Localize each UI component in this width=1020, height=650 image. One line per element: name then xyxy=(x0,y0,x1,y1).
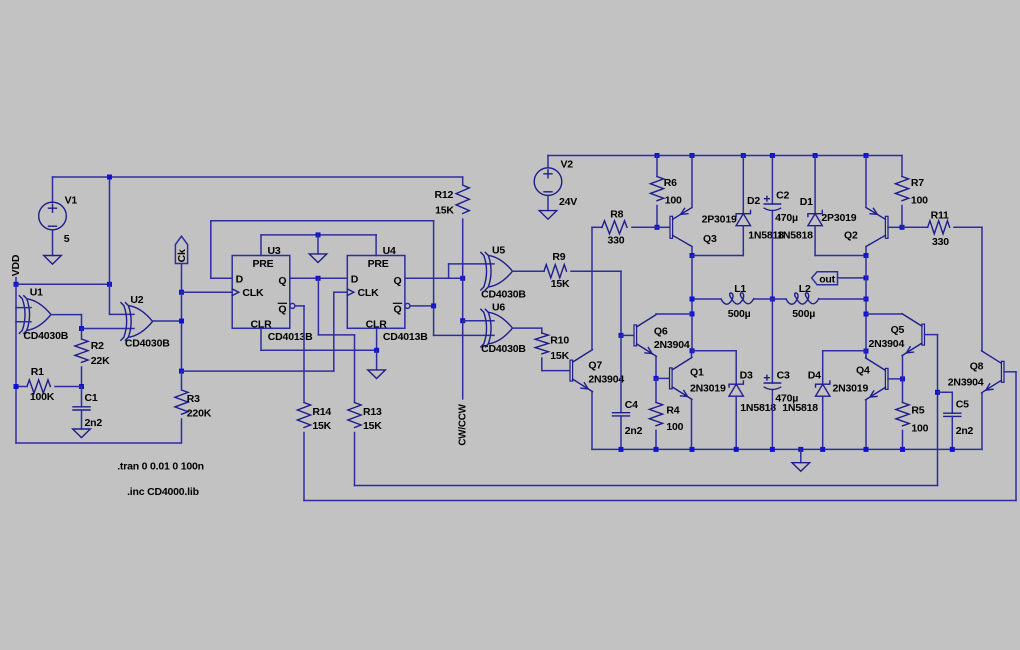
junction Ck/R3 xyxy=(179,369,184,374)
wire R6 bottom lead xyxy=(656,206,658,228)
wire Qbar to U6 xyxy=(433,306,435,336)
svg-text:D1: D1 xyxy=(800,196,813,208)
wire L2 left lead xyxy=(772,298,786,300)
svg-text:C5: C5 xyxy=(956,399,969,411)
svg-text:C4: C4 xyxy=(625,399,638,411)
ground PRE xyxy=(309,254,327,263)
svg-text:330: 330 xyxy=(932,236,949,248)
wire C5 wire xyxy=(938,391,953,393)
wire V1 bottom xyxy=(52,230,54,256)
xor gate U2 xyxy=(121,303,153,341)
pin Qbar bubble U3 xyxy=(290,303,295,308)
wire V2 stem xyxy=(547,156,549,168)
wire PRE gnd stem xyxy=(317,235,319,254)
wire D4 bottom lead xyxy=(822,396,824,449)
junction Q3 base node xyxy=(655,225,660,230)
wire Q tap right xyxy=(318,334,354,336)
wire R9 down xyxy=(620,271,622,335)
svg-text:D4: D4 xyxy=(808,370,821,382)
wire U2 upper input xyxy=(110,313,135,315)
svg-text:Q2: Q2 xyxy=(844,229,858,241)
svg-text:R6: R6 xyxy=(664,177,677,189)
junction Q1 base node xyxy=(654,376,659,381)
svg-text:R10: R10 xyxy=(550,335,569,347)
inductor L2 xyxy=(786,293,819,304)
wire R12 bottom lead xyxy=(462,219,464,278)
wire D1 bottom lead xyxy=(814,226,816,256)
svg-text:100: 100 xyxy=(911,423,928,435)
junction rail Q4e xyxy=(864,447,869,452)
svg-text:D3: D3 xyxy=(740,370,753,382)
svg-text:V1: V1 xyxy=(65,195,78,207)
svg-text:100K: 100K xyxy=(30,391,55,403)
wire U1 output xyxy=(51,314,82,316)
wire U1 input b xyxy=(16,321,31,323)
svg-text:C1: C1 xyxy=(85,392,98,404)
svg-text:VDD: VDD xyxy=(10,254,22,276)
inductor L1 xyxy=(721,293,754,304)
capacitor C1 xyxy=(73,407,90,410)
svg-text:5: 5 xyxy=(64,233,70,245)
wire Q1 emitter xyxy=(691,399,693,449)
wire R8 left corner xyxy=(592,226,602,228)
wire Q4 emitter xyxy=(865,400,867,450)
junction rail gnd xyxy=(798,447,803,452)
diode D2 xyxy=(736,211,750,226)
svg-text:330: 330 xyxy=(608,235,625,247)
svg-text:R12: R12 xyxy=(435,189,454,201)
ground main xyxy=(792,463,810,472)
wire bottom long Q8 base xyxy=(304,500,1016,502)
wire bottom left xyxy=(16,442,181,444)
wire C1 bottom lead xyxy=(81,410,83,429)
net flag out xyxy=(812,272,838,285)
svg-text:R8: R8 xyxy=(610,209,623,221)
wire U2 output xyxy=(153,320,181,322)
wire U5 out xyxy=(513,270,545,272)
wire C3 top lead xyxy=(771,299,773,383)
svg-text:out: out xyxy=(819,273,835,285)
capacitor C5 xyxy=(944,413,961,416)
resistor R7 xyxy=(895,177,908,201)
wire R3 top lead xyxy=(181,371,183,390)
wire U4 Q out xyxy=(405,277,463,279)
wire V2 rail xyxy=(548,155,902,157)
svg-text:R14: R14 xyxy=(312,406,331,418)
svg-text:24V: 24V xyxy=(559,196,577,208)
wire R3 bottom lead xyxy=(181,419,183,443)
junction CWCCW/U6 xyxy=(460,318,465,323)
ground V1 xyxy=(44,256,62,265)
svg-text:CW/CCW: CW/CCW xyxy=(458,403,469,445)
svg-text:.inc CD4000.lib: .inc CD4000.lib xyxy=(127,486,199,498)
wire U3 PRE up xyxy=(260,235,262,256)
transistor Q7 xyxy=(570,350,593,392)
junction Q4 base node xyxy=(900,376,905,381)
junction at x109 xyxy=(107,282,112,287)
wire U3 Q to U4 D xyxy=(290,277,348,279)
wire R10 top xyxy=(541,328,543,333)
wire R4 bottom lead xyxy=(655,430,657,449)
wire U6 out xyxy=(513,327,542,329)
junction rail R5 xyxy=(900,447,905,452)
junction C5 node xyxy=(935,390,940,395)
transistor Q1 xyxy=(670,357,693,399)
junction rail drop xyxy=(107,175,112,180)
resistor R5 xyxy=(896,403,909,426)
wire U4 PRE up xyxy=(375,235,377,256)
svg-text:15K: 15K xyxy=(363,420,382,432)
wire L1 right lead xyxy=(755,298,773,300)
flip-flop U3 body xyxy=(232,256,290,329)
wire R7 corner xyxy=(901,156,903,177)
svg-text:D: D xyxy=(351,274,359,286)
svg-text:R7: R7 xyxy=(911,177,924,189)
capacitor C3 xyxy=(764,375,780,389)
wire ground rail xyxy=(592,448,982,450)
resistor R8 xyxy=(602,221,627,234)
wire D4 top lead xyxy=(822,351,824,384)
svg-text:1N5818: 1N5818 xyxy=(777,229,813,241)
svg-text:C3: C3 xyxy=(777,370,790,382)
junction Q2 base node xyxy=(900,225,905,230)
wire Q2 base xyxy=(888,226,902,228)
junction Ck/U2out xyxy=(179,319,184,324)
wire Q8 emitter xyxy=(981,393,983,450)
resistor R9 xyxy=(544,265,567,278)
wire Ck vertical xyxy=(181,292,183,371)
wire Q3 base xyxy=(657,226,669,228)
resistor R12 xyxy=(456,185,469,213)
junction Q4 collector/D4 xyxy=(864,349,869,354)
wire Q7 emitter xyxy=(591,392,593,450)
wire CWCCW mid xyxy=(462,278,464,320)
svg-text:Ck: Ck xyxy=(176,249,188,262)
resistor R10 xyxy=(535,333,548,354)
wire L2 right lead xyxy=(820,298,866,300)
junction rail R6 xyxy=(655,153,660,158)
wire out xyxy=(838,277,867,279)
wire U5 input a xyxy=(449,263,494,265)
svg-text:Q7: Q7 xyxy=(588,360,602,372)
wire C4 top lead xyxy=(620,335,622,412)
wire R11 left lead xyxy=(902,226,928,228)
wire feedback right vertical xyxy=(433,221,435,306)
wire R13 top vertical xyxy=(354,335,356,403)
wire C1 top lead xyxy=(81,387,83,407)
svg-text:Q3: Q3 xyxy=(703,233,717,245)
wire VDD rail top xyxy=(53,176,463,178)
wire U1 output down xyxy=(81,315,83,329)
wire PRE horizontal xyxy=(261,234,376,236)
pin CLK arrow U3 xyxy=(232,289,239,296)
junction rail D1 xyxy=(813,153,818,158)
wire R12 top lead xyxy=(462,177,464,185)
svg-text:2N3904: 2N3904 xyxy=(948,377,984,389)
svg-text:D: D xyxy=(236,274,244,286)
junction L1 L2 C2 C3 xyxy=(770,297,775,302)
wire Q5 base riser xyxy=(937,335,939,486)
wire R10 bottom xyxy=(541,358,543,371)
wire D1 top lead xyxy=(814,156,816,214)
svg-text:D2: D2 xyxy=(747,195,760,207)
svg-text:2N3904: 2N3904 xyxy=(654,339,690,351)
junction out xyxy=(864,275,869,280)
svg-text:500µ: 500µ xyxy=(728,308,751,320)
svg-text:2n2: 2n2 xyxy=(85,417,103,429)
svg-text:Q: Q xyxy=(278,304,286,316)
svg-text:500µ: 500µ xyxy=(792,308,815,320)
svg-text:CLK: CLK xyxy=(242,287,264,299)
ground C1 xyxy=(73,429,91,438)
svg-text:PRE: PRE xyxy=(368,258,389,270)
svg-text:CD4030B: CD4030B xyxy=(23,330,68,342)
svg-text:2N3904: 2N3904 xyxy=(869,338,905,350)
svg-text:2N3019: 2N3019 xyxy=(690,382,726,394)
svg-text:2P3019: 2P3019 xyxy=(702,214,737,226)
wire Q8 base lead xyxy=(1004,371,1016,373)
svg-text:R9: R9 xyxy=(552,251,565,263)
wire Q4 base xyxy=(888,378,903,380)
wire Q8 collector riser xyxy=(981,227,983,350)
svg-text:R13: R13 xyxy=(363,406,382,418)
wire Q3 collector xyxy=(691,247,693,256)
resistor R1 xyxy=(27,380,50,393)
wire Q4 collector xyxy=(865,351,867,358)
svg-text:22K: 22K xyxy=(91,355,110,367)
wire R6 top lead xyxy=(656,156,658,177)
wire Q5 collector xyxy=(866,313,903,315)
svg-text:100: 100 xyxy=(666,421,683,433)
svg-text:2N3904: 2N3904 xyxy=(588,373,624,385)
resistor R2 xyxy=(75,339,88,362)
svg-text:15K: 15K xyxy=(551,278,570,290)
svg-text:100: 100 xyxy=(911,195,928,207)
xor gate U1 xyxy=(19,296,51,334)
pin Qbar overline U3 xyxy=(278,302,286,304)
svg-text:L2: L2 xyxy=(799,283,811,295)
wire D3 top wire xyxy=(692,350,736,352)
diode D1 xyxy=(808,211,822,226)
junction rail Q1e xyxy=(690,447,695,452)
svg-text:Q: Q xyxy=(394,275,402,287)
wire Q7 base xyxy=(542,370,569,372)
svg-text:R5: R5 xyxy=(911,405,924,417)
wire R5 bottom lead xyxy=(902,431,904,450)
svg-text:470µ: 470µ xyxy=(775,212,798,224)
wire mid bus xyxy=(691,256,693,351)
wire Q3 emitter xyxy=(691,156,693,208)
junction U1 out node xyxy=(79,326,84,331)
transistor Q2 xyxy=(866,208,888,247)
svg-text:220K: 220K xyxy=(187,408,212,420)
svg-text:Q4: Q4 xyxy=(856,364,870,376)
junction Q3a node xyxy=(316,276,321,281)
net flag Ck xyxy=(175,236,187,263)
svg-text:CD4030B: CD4030B xyxy=(481,343,526,355)
wire Q7 collector xyxy=(591,227,593,349)
junction Q6 base node xyxy=(619,333,624,338)
wire VDD stem xyxy=(15,278,17,285)
svg-text:U4: U4 xyxy=(383,245,396,257)
wire Ck stem xyxy=(181,264,183,293)
resistor R11 xyxy=(928,221,950,234)
wire C2 top lead xyxy=(771,156,773,205)
svg-text:15K: 15K xyxy=(435,205,454,217)
svg-text:CD4030B: CD4030B xyxy=(481,289,526,301)
voltage source V2 xyxy=(534,168,562,196)
wire right bus a xyxy=(865,256,867,358)
flip-flop U4 body xyxy=(347,256,405,329)
capacitor C2 xyxy=(764,196,780,210)
wire Q6 collector xyxy=(656,313,692,315)
svg-text:PRE: PRE xyxy=(253,258,274,270)
transistor Q8 xyxy=(982,351,1005,393)
wire C5 top lead xyxy=(951,392,953,413)
svg-text:U6: U6 xyxy=(492,302,505,314)
wire R11 right lead xyxy=(954,226,982,228)
junction rail D2 xyxy=(741,153,746,158)
wire R4 top lead xyxy=(655,378,657,402)
wire Q1 collector xyxy=(691,351,693,358)
junction rail Q3e xyxy=(690,153,695,158)
svg-text:Q6: Q6 xyxy=(654,325,668,337)
wire Q6 base xyxy=(621,334,633,336)
junction PRE ground xyxy=(316,232,321,237)
junction R1 left xyxy=(14,384,19,389)
junction rail D3 xyxy=(734,447,739,452)
wire R8 right lead xyxy=(632,226,657,228)
svg-text:C2: C2 xyxy=(776,190,789,202)
resistor R4 xyxy=(649,402,662,425)
wire U5 input tap up xyxy=(448,264,450,278)
diode D3 xyxy=(729,381,743,396)
wire R2 top lead xyxy=(81,329,83,340)
svg-text:2n2: 2n2 xyxy=(956,425,974,437)
wire U4 CLK vertical xyxy=(333,292,335,371)
resistor R13 xyxy=(348,403,361,428)
wire CWCCW tail xyxy=(462,321,464,399)
wire L1 left lead xyxy=(692,298,721,300)
wire R14 bottom xyxy=(303,433,305,501)
wire CLR gnd stem xyxy=(376,350,378,370)
capacitor C4 xyxy=(613,413,630,416)
resistor R6 xyxy=(650,177,663,201)
svg-text:CLK: CLK xyxy=(358,287,380,299)
wire U4 CLR down xyxy=(376,328,378,350)
svg-text:100: 100 xyxy=(665,195,682,207)
wire U3 CLK xyxy=(182,291,233,293)
resistor R3 xyxy=(175,390,188,414)
wire Q2 collector xyxy=(865,247,867,256)
wire V2 bottom xyxy=(547,195,549,210)
wire D2 bottom lead xyxy=(742,226,744,256)
svg-text:CD4013B: CD4013B xyxy=(268,331,313,343)
wire CLR horizontal xyxy=(261,349,377,351)
svg-text:1N5818: 1N5818 xyxy=(740,402,776,414)
svg-text:V2: V2 xyxy=(561,159,574,171)
wire U1 input a xyxy=(16,307,31,309)
junction Q1 collector/D3 xyxy=(690,348,695,353)
svg-text:2N3019: 2N3019 xyxy=(833,382,869,394)
junction rail D4 xyxy=(820,447,825,452)
diode D4 xyxy=(816,381,830,396)
junction rail C5 xyxy=(950,447,955,452)
junction rail C4 xyxy=(619,447,624,452)
junction R2/C1/R1 xyxy=(79,384,84,389)
wire gnd stem xyxy=(800,449,802,462)
wire U3 CLR down xyxy=(260,328,262,350)
svg-text:15K: 15K xyxy=(312,420,331,432)
svg-text:U2: U2 xyxy=(130,294,143,306)
wire bottom long Q5 base xyxy=(355,485,938,487)
junction Q/R12 xyxy=(460,276,465,281)
wire C4 bottom lead xyxy=(620,416,622,449)
svg-text:R3: R3 xyxy=(187,393,200,405)
wire D2 top lead xyxy=(742,156,744,214)
svg-text:.tran 0 0.01 0 100n: .tran 0 0.01 0 100n xyxy=(117,460,204,472)
junction rail R4 xyxy=(654,447,659,452)
svg-text:U3: U3 xyxy=(268,245,281,257)
junction CLR xyxy=(374,348,379,353)
svg-text:R4: R4 xyxy=(666,405,679,417)
wire D2 bottom wire xyxy=(692,255,743,257)
pin CLK arrow U4 xyxy=(347,289,354,296)
junction VDD node xyxy=(14,282,19,287)
wire U3 Qbar out xyxy=(295,305,304,307)
junction Q3 collector xyxy=(690,253,695,258)
wire U4 Qbar out xyxy=(410,305,434,307)
xor gate U6 xyxy=(481,309,513,347)
wire R13 bottom xyxy=(354,433,356,486)
svg-text:Q5: Q5 xyxy=(891,324,905,336)
transistor Q5 xyxy=(902,314,925,356)
wire to U2 input b xyxy=(82,328,135,330)
wire left rail vertical xyxy=(15,284,17,443)
svg-text:L1: L1 xyxy=(734,283,746,295)
wire D3 top lead xyxy=(735,351,737,384)
resistor R14 xyxy=(297,403,310,428)
svg-text:Q: Q xyxy=(278,275,286,287)
junction U4 Qbar node xyxy=(431,303,436,308)
wire U4 CLK stub xyxy=(334,291,348,293)
transistor Q6 xyxy=(634,314,657,356)
wire Q1 base xyxy=(656,377,669,379)
svg-text:R1: R1 xyxy=(31,366,44,378)
wire C5 bottom lead xyxy=(951,417,953,450)
junction Q2 collector xyxy=(864,253,869,258)
junction Ck/CLK xyxy=(179,290,184,295)
wire R9 out xyxy=(571,270,621,272)
junction rail Q2e xyxy=(864,153,869,158)
junction rail C3 xyxy=(770,447,775,452)
junction Q6 collector xyxy=(690,311,695,316)
voltage source V1 xyxy=(39,202,67,230)
svg-text:1N5818: 1N5818 xyxy=(782,402,818,414)
svg-text:2P3019: 2P3019 xyxy=(821,212,856,224)
ground V2 xyxy=(539,211,557,220)
svg-text:Q8: Q8 xyxy=(970,361,984,373)
junction Q5 collector xyxy=(864,312,869,317)
wire R1 left lead xyxy=(16,386,27,388)
ground CLR xyxy=(368,370,386,379)
wire V1 stem xyxy=(52,177,54,202)
wire C2 bottom lead xyxy=(771,211,773,299)
svg-text:2n2: 2n2 xyxy=(625,425,643,437)
wire CLK to Ck line xyxy=(182,370,334,372)
wire VDD horizontal xyxy=(16,283,110,285)
wire Q5 emitter line xyxy=(902,356,904,403)
